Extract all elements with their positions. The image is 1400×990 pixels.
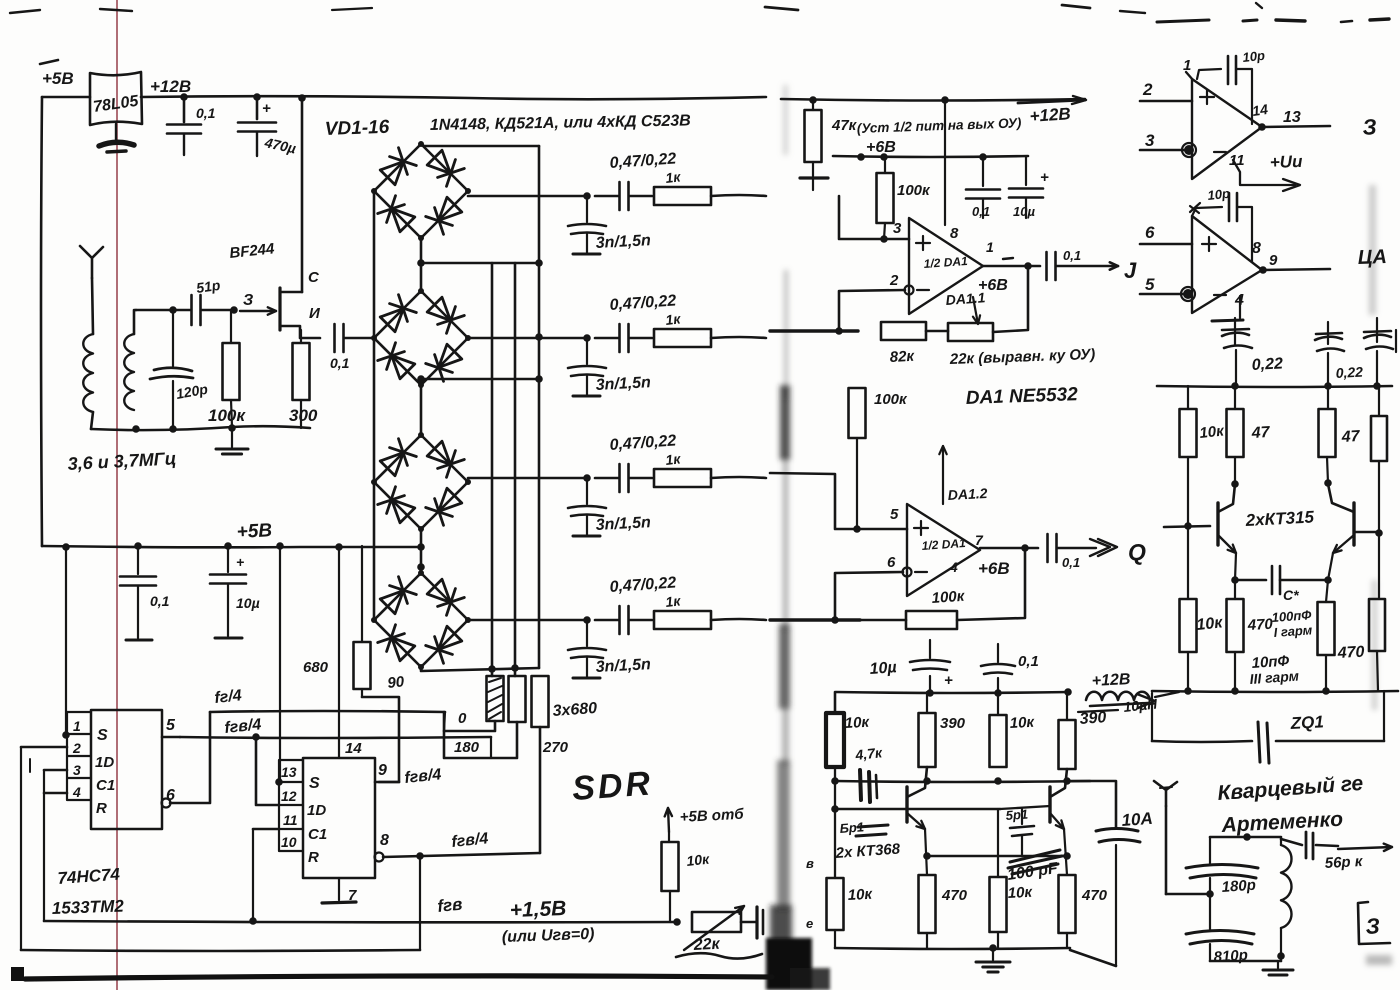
wire D2 from bus2: [256, 737, 279, 805]
svg-text:S: S: [97, 727, 108, 744]
junction plus in DA12: [853, 525, 861, 533]
junction top rail b: [253, 93, 261, 101]
svg-text:10р: 10р: [1242, 48, 1266, 65]
ground ff2 pin7: [338, 878, 340, 900]
wire tank right: [1280, 837, 1282, 845]
chain right edge: [1378, 386, 1380, 416]
transistor Q3 collector: [1050, 769, 1067, 797]
wire ff1 pin2 in: [21, 746, 67, 749]
svg-text:(или Uгв=0): (или Uгв=0): [502, 926, 595, 946]
transistor Q2 bar: [905, 787, 908, 822]
wire +12V rail right part: [781, 99, 1085, 101]
wire box 180 link: [444, 712, 517, 758]
transistor Q4 bar: [1216, 503, 1219, 545]
wire 5V to FF2 pin13: [279, 546, 281, 782]
capacitor 180p: [1186, 865, 1258, 869]
junction 5V c: [224, 542, 232, 550]
crystal Br1: [858, 825, 888, 827]
svg-text:0,22: 0,22: [1251, 355, 1283, 374]
capacitor 51p: [190, 295, 193, 325]
svg-text:11: 11: [283, 812, 298, 828]
junction 12V at 47k: [809, 96, 817, 104]
junction osc rail c: [1064, 688, 1072, 696]
resistor 470 e2: [1318, 602, 1335, 655]
junction kt rail b: [1324, 382, 1332, 390]
svg-text:300: 300: [289, 406, 318, 425]
svg-text:1: 1: [73, 718, 81, 734]
resistor 47k: [812, 100, 814, 110]
svg-text:10µ: 10µ: [236, 595, 260, 611]
wire 5V to FF1 pin1: [65, 547, 67, 735]
wire +5V left rail top: [42, 96, 90, 99]
resistor 90: [361, 546, 363, 642]
capacitor 3n shunt ch1: [586, 196, 588, 222]
wire ch1 to right: [711, 195, 766, 196]
capacitor 120p: [172, 310, 174, 366]
wire osc row A: [835, 781, 1090, 782]
transistor Q1 BF244 gate bar: [278, 288, 281, 330]
svg-text:3n/1,5n: 3n/1,5n: [595, 656, 651, 676]
wire ch2 to right: [711, 337, 766, 338]
svg-text:2хКТ315: 2хКТ315: [1244, 507, 1315, 530]
wire Q channel bold: [770, 329, 858, 332]
capacitor 0,1 osc: [997, 678, 999, 693]
svg-text:13: 13: [1283, 109, 1301, 126]
resistor 680 a hatched: [487, 676, 504, 721]
resistor 100k bias2: [849, 388, 866, 438]
capacitor 0,1 5V: [137, 546, 139, 574]
svg-text:+12В: +12В: [1091, 671, 1131, 690]
junction fgw a: [249, 917, 257, 925]
svg-text:+1,5В: +1,5В: [509, 897, 566, 922]
svg-text:0,22: 0,22: [1335, 364, 1363, 381]
junction DA11 out: [1024, 262, 1032, 270]
wire osc top rail: [836, 692, 1070, 693]
phase bus 270: [538, 146, 541, 668]
capacitor 0,22 b: [1316, 333, 1342, 334]
svg-text:+6В: +6В: [978, 277, 1008, 294]
svg-text:9: 9: [378, 762, 387, 779]
resistor 47 b: [1327, 386, 1329, 409]
wire ff1 pin6 out: [170, 712, 210, 803]
capacitor 3n shunt ch4: [586, 620, 588, 646]
svg-text:390: 390: [940, 715, 966, 732]
capacitor 0,1 out J: [1045, 252, 1048, 280]
svg-text:2: 2: [72, 740, 81, 756]
svg-text:+: +: [944, 672, 953, 689]
junction top rail c: [298, 94, 306, 102]
wire emitter1 node: [1235, 553, 1236, 580]
svg-text:47: 47: [1340, 428, 1361, 446]
wire bridges left bus: [373, 191, 376, 338]
svg-text:1к: 1к: [665, 450, 682, 468]
svg-text:З: З: [1362, 114, 1378, 140]
svg-text:180р: 180р: [1221, 877, 1256, 896]
wire tank top: [136, 309, 190, 312]
transistor Q1 drain: [280, 291, 302, 294]
junction pin1: [62, 731, 70, 739]
wire kt bottom rail: [1152, 691, 1398, 692]
junction bottom rail: [989, 944, 997, 952]
capacitor 880p: [1186, 931, 1254, 935]
svg-text:С1: С1: [308, 826, 327, 843]
svg-text:I гарм: I гарм: [1273, 622, 1313, 640]
svg-text:0,1: 0,1: [1018, 653, 1039, 670]
junction 6V b: [880, 153, 888, 161]
resistor 470 bottom2: [1059, 875, 1076, 933]
svg-text:R: R: [96, 800, 107, 817]
wire rail gap link: [1155, 692, 1179, 697]
wire emitter2 node: [1328, 553, 1333, 580]
wire channel 3 from bridge: [468, 477, 587, 480]
wire fgw line: [44, 921, 677, 922]
svg-text:5: 5: [890, 506, 899, 523]
svg-text:10к: 10к: [1199, 422, 1226, 442]
resistor 390 osc1: [919, 713, 936, 767]
capacitor 0,47 ch4: [595, 619, 618, 622]
wire kt top rail: [1157, 386, 1392, 387]
junction channel 3: [583, 474, 591, 482]
svg-text:10µ: 10µ: [869, 659, 897, 678]
ring comp1 in-: [1184, 145, 1194, 155]
junction channel 2: [583, 334, 591, 342]
left edge tick: [40, 60, 58, 64]
wire ch4 to right: [711, 619, 766, 620]
junction 5V a: [62, 543, 70, 551]
capacitor 0,1 at 12V: [183, 97, 186, 122]
svg-text:+12В: +12В: [150, 77, 191, 96]
svg-text:10µ: 10µ: [1013, 204, 1035, 219]
wire L1 bottom: [91, 412, 93, 429]
wire comp2 out: [1262, 269, 1330, 270]
svg-text:3: 3: [73, 762, 81, 778]
svg-text:22к: 22к: [692, 936, 721, 954]
svg-text:S: S: [309, 775, 320, 792]
transistor Q2 emitter: [907, 813, 925, 829]
transistor Q5 bar: [1352, 503, 1355, 545]
wire +Ui arrow: [1233, 160, 1295, 185]
arrow out right: [1338, 847, 1392, 849]
svg-text:З: З: [1365, 913, 1380, 939]
junction 6V c: [979, 153, 987, 161]
svg-text:R: R: [308, 849, 319, 866]
junction b2b3 mid: [417, 375, 425, 383]
capacitor 10u osc: [929, 676, 931, 693]
inductor 10uH: [1086, 692, 1150, 700]
svg-text:9: 9: [1269, 252, 1278, 269]
junction channel 4: [583, 616, 591, 624]
resistor 390 osc2: [1059, 720, 1076, 769]
bottom left corner mark: [11, 967, 24, 981]
notebook margin rule: [116, 0, 118, 990]
comparator U4.1: [1192, 79, 1262, 179]
tank top wire: [1210, 836, 1281, 839]
svg-text:1: 1: [1183, 57, 1191, 74]
fold smudge band: [770, 85, 792, 955]
wire ff2 pin8 out: [383, 853, 540, 857]
resistor 470 e1: [1227, 599, 1244, 652]
wire fgw/4 bus2: [180, 737, 491, 738]
svg-text:3: 3: [1145, 131, 1155, 150]
resistor 300 source: [300, 330, 302, 343]
capacitor ZQ1: [1152, 741, 1252, 742]
svg-text:0,1: 0,1: [1062, 555, 1080, 570]
resistor 1k ch1: [654, 187, 711, 205]
top edge dash marks: [10, 10, 40, 13]
wire osc row C: [927, 855, 1067, 858]
wire output tap: [1067, 781, 1116, 827]
capacitor 0,47 ch2: [595, 337, 618, 340]
resistor 10k e1: [1187, 526, 1189, 599]
svg-text:3: 3: [893, 220, 902, 237]
wire +6V rail: [833, 156, 1028, 157]
svg-text:7: 7: [975, 532, 984, 548]
wire cap to bridge2: [344, 337, 374, 340]
wire osc row B: [835, 808, 1000, 811]
svg-text:1к: 1к: [665, 310, 682, 328]
right scan streaks: [1366, 185, 1392, 965]
wire ff2 pin9 out: [375, 781, 399, 784]
junction tank top: [169, 306, 177, 314]
wire channel 1 from bridge: [468, 195, 587, 198]
svg-text:SDR: SDR: [571, 764, 654, 808]
svg-text:10к: 10к: [844, 714, 871, 732]
svg-text:0: 0: [458, 710, 467, 727]
svg-text:И: И: [309, 305, 321, 322]
resistor 10k osc bottom1: [827, 878, 844, 930]
wire antenna to tank: [1166, 893, 1210, 896]
transistor Q3 emitter: [1050, 813, 1064, 829]
svg-text:470: 470: [1336, 644, 1365, 662]
wire tank bottom: [91, 426, 310, 430]
junction tank bottom b: [169, 425, 177, 433]
antenna out symbol: [1154, 781, 1166, 806]
svg-text:14: 14: [1251, 101, 1269, 119]
resistor 10k otb: [668, 832, 670, 842]
junction b1b2 mid: [417, 259, 425, 267]
wire q3 emitter drop: [1064, 829, 1067, 875]
svg-text:ЦА: ЦА: [1357, 246, 1387, 269]
wire ch1 into DA1.1: [839, 196, 909, 239]
junction plus in DA11: [880, 235, 888, 243]
svg-text:10к: 10к: [847, 886, 874, 904]
flipflop U2 pin stubs: [67, 712, 91, 800]
ring ff2 pin8: [375, 853, 384, 862]
svg-text:3n/1,5n: 3n/1,5n: [595, 514, 651, 534]
page ref box 3: [1358, 902, 1390, 944]
wire zq left drop: [1151, 693, 1153, 741]
svg-text:1к: 1к: [665, 168, 682, 186]
arrow out J: [1057, 265, 1118, 268]
op-amp U DA1.1: [909, 218, 983, 314]
wire out bottom join: [1070, 950, 1116, 966]
potentiometer 22k: [692, 912, 741, 932]
svg-text:е: е: [806, 916, 813, 931]
resistor 680 c: [532, 676, 549, 727]
junction tank bottom a: [132, 425, 140, 433]
resistor 10k osc1 bold: [826, 713, 844, 767]
svg-text:0,1: 0,1: [150, 593, 170, 609]
diode bridge VD9-12: [374, 435, 421, 482]
capacitor out osc: [1096, 829, 1138, 832]
wire b1-b2 link: [420, 238, 423, 291]
svg-text:100к: 100к: [208, 406, 246, 425]
wire 5V to FF2 pin14: [338, 547, 340, 758]
wire b3-b4 link: [420, 529, 423, 573]
svg-text:С*: С*: [1283, 587, 1299, 603]
junction 12V at pin8: [941, 96, 949, 104]
wire ff1 pin3 in: [44, 769, 67, 772]
svg-text:+5В отб: +5В отб: [679, 806, 744, 826]
svg-text:82к: 82к: [889, 348, 916, 366]
svg-text:+5В: +5В: [42, 69, 74, 88]
junction tank top: [1243, 833, 1251, 841]
wire ch4 bold: [770, 618, 860, 621]
svg-text:5: 5: [1145, 275, 1155, 294]
wire osc left drop: [834, 767, 836, 878]
wire +12V top rail: [141, 96, 766, 99]
svg-text:З: З: [243, 292, 253, 309]
capacitor 0,47 ch1: [595, 195, 618, 198]
svg-text:1D: 1D: [95, 754, 114, 771]
wire 90 to pin9: [362, 697, 399, 782]
svg-text:Бр1: Бр1: [839, 819, 864, 836]
junction top rail a: [180, 93, 188, 101]
mark comp2 pin top: [1190, 203, 1200, 213]
svg-text:100к: 100к: [874, 391, 908, 408]
wire q3 base in: [1000, 806, 1050, 809]
phase bus 0: [491, 263, 494, 676]
svg-text:47: 47: [1250, 424, 1271, 442]
resistor 10k osc2: [990, 715, 1007, 767]
wire b1b2 tap: [421, 262, 541, 265]
junction b3b4 mid: [417, 543, 425, 551]
svg-text:14: 14: [345, 740, 362, 757]
svg-text:2: 2: [1142, 80, 1153, 99]
resistor 10k bottom2: [990, 877, 1007, 932]
transistor Q5 emitter: [1333, 535, 1354, 553]
svg-text:fг/4: fг/4: [214, 687, 243, 707]
svg-text:+5В: +5В: [236, 520, 273, 543]
svg-text:12: 12: [281, 788, 297, 804]
svg-text:100к: 100к: [897, 182, 931, 199]
wire comp2 in-: [1140, 293, 1184, 296]
squiggle under pot: [676, 953, 762, 958]
resistor 47 a: [1234, 386, 1236, 409]
wire +5V rail: [42, 546, 421, 547]
op-amp U DA1.2: [907, 504, 980, 596]
transistor Q3 bar: [1048, 787, 1051, 822]
ground below 7805: [115, 124, 117, 142]
svg-text:56р к: 56р к: [1324, 853, 1364, 872]
transistor Q5 collector: [1328, 484, 1354, 512]
capacitor 10p comp1: [1197, 69, 1221, 79]
svg-text:1D: 1D: [307, 802, 326, 819]
junction rowA c: [994, 777, 1002, 785]
svg-text:3х680: 3х680: [552, 700, 598, 720]
svg-text:6: 6: [1145, 223, 1155, 242]
svg-text:470: 470: [1081, 887, 1108, 904]
transistor Q4 collector: [1218, 484, 1235, 512]
capacitor 3n shunt ch2: [586, 338, 588, 364]
svg-text:J: J: [1124, 258, 1137, 283]
junction pin13: [275, 778, 283, 786]
wire r680c bottom drop: [539, 727, 542, 853]
svg-text:Q: Q: [1128, 539, 1146, 565]
svg-text:8: 8: [380, 832, 389, 849]
resistor 1k ch4: [654, 611, 711, 629]
capacitor 0,47 ch3: [595, 477, 618, 480]
svg-text:270: 270: [542, 739, 569, 756]
svg-text:в: в: [806, 856, 814, 871]
svg-text:2: 2: [889, 272, 899, 289]
capacitor 0,22 c: [1364, 331, 1391, 332]
transistor Q4 emitter: [1218, 535, 1236, 553]
svg-text:810р: 810р: [1213, 947, 1248, 966]
svg-text:1533ТМ2: 1533ТМ2: [51, 896, 124, 918]
svg-text:3n/1,5n: 3n/1,5n: [595, 232, 651, 252]
junction kt bot b: [1231, 687, 1239, 695]
resistor 1k ch2: [654, 329, 711, 347]
wire bus1 drop: [444, 712, 445, 731]
capacitor 470u: [256, 97, 259, 119]
svg-text:680: 680: [303, 659, 329, 676]
junction base1: [1184, 522, 1192, 530]
wire drain drop: [301, 98, 304, 292]
junction rowA d: [1063, 777, 1071, 785]
svg-text:+Uи: +Uи: [1269, 152, 1303, 172]
wire fb mid: [926, 330, 948, 333]
junction 5V b: [134, 542, 142, 550]
capacitor 0,1 6V: [982, 157, 984, 186]
tank left top: [1209, 837, 1211, 864]
svg-text:1: 1: [986, 239, 994, 255]
flipflop U3 pin stubs: [279, 760, 303, 851]
transistor Q2 collector: [907, 767, 927, 797]
svg-text:DA1.2: DA1.2: [947, 485, 988, 503]
svg-text:10к: 10к: [1009, 714, 1036, 732]
flipflop U2 box: [91, 710, 162, 829]
capacitor C* between emitters: [1235, 579, 1266, 582]
svg-text:ZQ1: ZQ1: [1289, 712, 1324, 733]
wire bus2 drop: [490, 737, 492, 758]
wire comp2 in+: [1140, 243, 1192, 246]
junction rowA b: [923, 777, 931, 785]
junction osc rail b: [994, 689, 1002, 697]
svg-text:8: 8: [1252, 240, 1261, 257]
svg-text:10к: 10к: [686, 851, 711, 869]
svg-text:6: 6: [887, 554, 896, 571]
capacitor 0,1 mixer in: [333, 324, 336, 352]
svg-text:90: 90: [387, 673, 406, 692]
svg-text:0,1: 0,1: [196, 105, 216, 121]
svg-text:VD1-16: VD1-16: [324, 117, 390, 140]
wire DA12 out: [980, 547, 1038, 550]
dashes top right: [1157, 20, 1209, 22]
wire ch3 to right: [711, 477, 766, 478]
ground tank out: [1277, 961, 1279, 968]
pin6 invert ring: [903, 568, 912, 577]
wire C2 drop: [253, 828, 279, 831]
wire antenna drop: [1165, 806, 1168, 894]
svg-text:0,1: 0,1: [330, 355, 350, 371]
resistor 680 b: [509, 676, 526, 722]
resistor 100k gate: [230, 310, 232, 343]
diode bridge VD5-8: [374, 291, 421, 338]
svg-text:+: +: [262, 100, 271, 117]
diode bridge VD1-4: [374, 144, 421, 191]
capacitor 10u 6V: [1025, 157, 1027, 185]
